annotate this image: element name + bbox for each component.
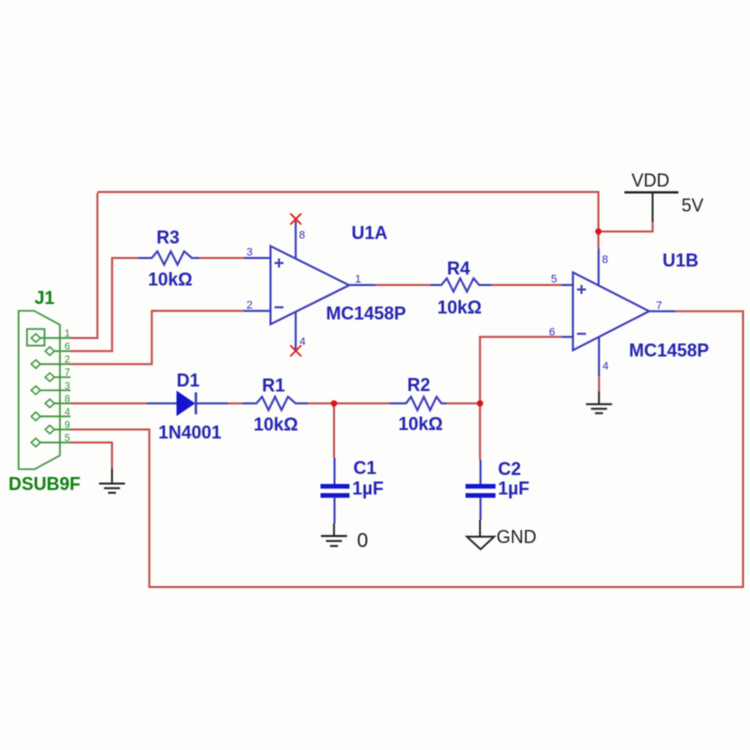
resistor R3	[138, 228, 200, 290]
U1A pin 1 output stub	[349, 274, 375, 286]
svg-text:5: 5	[64, 433, 70, 444]
U1B pin 4 stub	[599, 337, 609, 376]
svg-text:5V: 5V	[682, 196, 704, 216]
svg-text:MC1458P: MC1458P	[629, 341, 709, 361]
J1 pin 7	[45, 368, 70, 382]
svg-text:5: 5	[551, 274, 557, 286]
wire: J1 pin2 to U1A pin2	[71, 311, 245, 364]
svg-text:R1: R1	[262, 376, 285, 396]
svg-text:GND: GND	[497, 527, 537, 547]
wire: J1 pin8 to D1 anode	[71, 402, 148, 404]
op-amp U1A	[271, 223, 407, 324]
U1B pin 8 stub	[599, 248, 609, 285]
node B: junction dot R2/C2/U1B pin6	[477, 400, 483, 406]
wire: node A down to C1	[333, 403, 335, 457]
resistor R1	[242, 376, 308, 435]
svg-text:1N4001: 1N4001	[158, 423, 221, 443]
power symbol VDD 5V	[624, 171, 703, 222]
wire: VDD source branch to rail	[598, 221, 652, 232]
J1 pin 1 (with square box)	[27, 329, 71, 346]
wire: J1 pin5 to ground	[71, 443, 113, 469]
svg-text:DSUB9F: DSUB9F	[9, 474, 81, 494]
U1A pin 3 stub	[244, 247, 271, 259]
svg-text:C1: C1	[353, 458, 376, 478]
ground: below C1 (net 0)	[321, 523, 368, 552]
wire: R2 right to node B	[447, 402, 481, 404]
svg-text:D1: D1	[177, 371, 200, 391]
capacitor C1	[321, 458, 384, 524]
svg-text:10kΩ: 10kΩ	[437, 298, 481, 318]
diode D1 1N4001	[147, 371, 228, 443]
wire: R1 to node A to R2	[308, 402, 389, 404]
wire: node B down to C2	[479, 403, 481, 459]
U1A pin 2 stub	[244, 300, 271, 312]
J1 pin 3	[31, 381, 70, 395]
svg-text:7: 7	[64, 368, 70, 379]
J1 value label DSUB9F	[9, 474, 81, 494]
svg-text:3: 3	[247, 247, 253, 259]
wire: VDD top rail from J1 pin1 riser to U1B pin8	[97, 192, 598, 248]
svg-text:R3: R3	[157, 228, 180, 248]
J1 pin 5	[31, 433, 70, 447]
svg-text:10kΩ: 10kΩ	[398, 414, 442, 434]
wire: J1 pin6 up to R3 left	[71, 258, 138, 351]
J1 pin 4	[31, 407, 70, 421]
svg-text:8: 8	[602, 254, 608, 266]
U1B pin 6 stub	[549, 327, 573, 339]
J1 pin 8	[45, 394, 70, 408]
svg-text:R2: R2	[407, 375, 430, 395]
node A: junction dot R1/R2/C1	[331, 400, 337, 406]
connector J1 body (DSUB9F)	[19, 311, 60, 469]
svg-text:1: 1	[64, 329, 70, 340]
wire: D1 cathode to R1	[228, 402, 242, 404]
op-amp U1B	[573, 251, 709, 361]
svg-text:0: 0	[357, 530, 368, 552]
svg-text:4: 4	[603, 361, 609, 373]
svg-text:2: 2	[64, 355, 70, 366]
resistor R4	[430, 259, 492, 318]
ground symbol GND (arrow style) below C2	[467, 520, 537, 549]
J1 pin 9	[45, 420, 70, 434]
svg-text:9: 9	[64, 420, 70, 431]
svg-text:U1A: U1A	[352, 223, 388, 243]
ground: below U1B pin 4	[586, 391, 612, 413]
wire: node B up to U1B pin6	[480, 337, 562, 404]
no-connect X on U1A pin 8	[290, 214, 301, 225]
no-connect X on U1A pin 4	[290, 345, 301, 356]
capacitor C2	[466, 459, 530, 520]
wire: U1A output to R4	[376, 284, 431, 286]
U1A pin 8 stub	[296, 221, 305, 259]
svg-text:10kΩ: 10kΩ	[254, 415, 298, 435]
wire: U1B output feedback loop to J1 pin9	[71, 311, 744, 587]
svg-text:R4: R4	[447, 259, 470, 279]
svg-text:MC1458P: MC1458P	[326, 304, 406, 324]
U1B pin 5 stub	[551, 274, 573, 286]
ground: below J1 pin5	[99, 468, 125, 492]
svg-text:1µF: 1µF	[352, 479, 383, 499]
svg-text:1µF: 1µF	[498, 479, 529, 499]
J1 pin 6	[45, 342, 70, 356]
wire: R3 right to U1A pin3	[199, 257, 244, 259]
svg-text:10kΩ: 10kΩ	[148, 270, 192, 290]
svg-text:1: 1	[355, 274, 361, 286]
svg-text:8: 8	[64, 394, 70, 405]
svg-text:C2: C2	[498, 459, 521, 479]
J1 pin 2	[31, 355, 70, 369]
svg-text:6: 6	[549, 327, 555, 339]
U1A pin 4 stub	[296, 312, 306, 350]
resistor R2	[390, 375, 447, 434]
svg-text:6: 6	[64, 342, 70, 353]
wire: U1B pin 4 red segment	[598, 376, 600, 391]
wire: J1 pin1 to top rail	[71, 193, 98, 338]
svg-text:VDD: VDD	[632, 171, 670, 191]
svg-text:8: 8	[299, 230, 305, 242]
svg-text:7: 7	[656, 300, 662, 312]
J1 reference label	[35, 288, 55, 308]
svg-text:3: 3	[64, 381, 70, 392]
wire: R4 to U1B pin5	[492, 284, 562, 286]
node: junction dot at VDD rail / U1B pin8	[595, 228, 601, 234]
svg-text:2: 2	[247, 300, 253, 312]
svg-text:4: 4	[64, 407, 70, 418]
svg-text:U1B: U1B	[663, 251, 699, 271]
svg-text:J1: J1	[35, 288, 55, 308]
U1B pin 7 output stub	[649, 300, 676, 312]
